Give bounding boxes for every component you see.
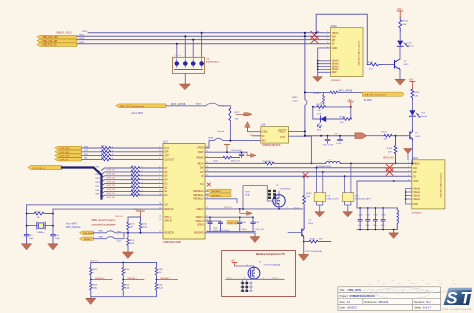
resistor R117 (102, 147, 111, 150)
svg-text:R136 0: R136 0 (314, 93, 322, 95)
wire CPEN to SB28 (205, 141, 214, 148)
svg-text:Shield: Shield (413, 188, 420, 190)
svg-text:VBAT: VBAT (198, 151, 204, 154)
junction (395, 135, 397, 137)
wire base T3 (288, 231, 302, 233)
port USB_FS1_DM (37, 35, 77, 39)
junction shield (317, 60, 319, 62)
resistor R306 N-A (90, 280, 93, 297)
wire USB_RESET to SB81 (94, 232, 107, 234)
resistor R127 10K (229, 109, 231, 121)
svg-text:R135: R135 (368, 62, 374, 64)
svg-text:C136: C136 (358, 215, 362, 217)
wire stub to ESD pin1 (176, 44, 178, 58)
svg-text:R110: R110 (131, 189, 135, 191)
svg-text:R250: R250 (130, 240, 135, 242)
svg-text:25: 25 (159, 207, 161, 209)
wire R133 to +5V node (326, 106, 351, 108)
svg-text:30: 30 (206, 151, 208, 153)
port MFX_IO8 Touchsensing (116, 104, 166, 108)
svg-text:R108: R108 (131, 193, 136, 195)
svg-text:4: 4 (327, 42, 328, 44)
svg-text:A4: A4 (347, 300, 351, 304)
svg-text:ULPI_DIR: ULPI_DIR (60, 152, 70, 154)
svg-text:MFX_GPIO8: MFX_GPIO8 (339, 90, 353, 93)
svg-text:2: 2 (263, 278, 264, 280)
svg-text:Title:: Title: (340, 288, 346, 292)
wire T4 drain (278, 192, 280, 195)
svg-text:T5_G: T5_G (272, 278, 277, 280)
capacitor C139 (218, 221, 222, 231)
label TP (yellow) (227, 221, 238, 225)
power +5V mid (347, 99, 353, 107)
port RESET# (80, 237, 94, 240)
power arrow right (pull-up rail) (236, 113, 244, 115)
wire R133 row (313, 106, 317, 108)
svg-text:1: 1 (408, 162, 409, 164)
wire LED row verticals (313, 107, 351, 119)
power arrow up (+5V into U14) (245, 122, 250, 128)
resistor R123 4K7 (384, 134, 392, 137)
wire CLKOUT row (82, 158, 163, 160)
svg-text:20: 20 (206, 175, 208, 177)
wire DP (77, 39, 331, 41)
connector CN16 USB Micro-AB (331, 25, 364, 82)
svg-text:ULPI_D4: ULPI_D4 (107, 181, 116, 183)
svg-text:OUT: OUT (280, 136, 286, 139)
wire VDD3.3 row (205, 216, 253, 218)
wire refsel2 (205, 199, 237, 203)
footprint pads T4 (268, 190, 276, 199)
wire to port (338, 91, 363, 93)
svg-text:ULPI_D0: ULPI_D0 (107, 197, 116, 199)
svg-text:REFSEL2: REFSEL2 (161, 278, 171, 280)
svg-text:C133 100nF[N-A]: C133 100nF[N-A] (305, 250, 322, 253)
svg-text:CLKOUT: CLKOUT (165, 159, 175, 161)
bus ULPI_D (62, 168, 102, 199)
wire ULPI_D1 (102, 191, 164, 194)
net label REFSEL2 (156, 279, 177, 281)
no-ERC cross DP (386, 169, 393, 176)
svg-text:VDDA: VDDA (197, 224, 204, 227)
svg-text:ESP: ESP (332, 72, 337, 74)
svg-text:0: 0 (142, 171, 143, 173)
mosfet T4 (273, 185, 291, 207)
ground U12 (315, 212, 325, 217)
no-connect cross NC pin (207, 183, 210, 186)
svg-text:4: 4 (408, 175, 409, 177)
svg-text:controlled by hardware: controlled by hardware (92, 223, 117, 226)
svg-text:VDD IO: VDD IO (115, 216, 123, 218)
inductor L8 (397, 208, 398, 230)
svg-text:26: 26 (159, 203, 161, 205)
svg-text:1.5K: 1.5K (317, 113, 322, 115)
svg-text:9: 9 (159, 186, 160, 188)
svg-text:From MFX: From MFX (66, 224, 77, 226)
svg-text:28: 28 (206, 219, 208, 221)
svg-text:Reference:: Reference: (365, 300, 378, 304)
wire R127 to EN node (229, 121, 231, 141)
port USB_RESET (80, 231, 94, 234)
power port +5V arrow (355, 133, 367, 139)
power +5V top (397, 7, 403, 17)
svg-text:C129 100nF: C129 100nF (219, 230, 230, 232)
svg-text:R246: R246 (130, 223, 135, 225)
svg-text:R131: R131 (310, 238, 316, 240)
svg-text:B-2: B-2 (427, 300, 432, 304)
port REFSEL0 (at IC) (207, 189, 231, 192)
svg-text:REFSEL1: REFSEL1 (193, 195, 204, 197)
capacitor bank rails (357, 208, 397, 230)
ground T3 (bottom) (299, 254, 309, 260)
resistor R115 (102, 150, 111, 153)
wire divider top rail (91, 262, 157, 264)
svg-text:[N-A]: [N-A] (245, 194, 250, 197)
svg-text:VBUS: VBUS (332, 33, 339, 35)
svg-text:ID: ID (332, 44, 335, 46)
svg-text:47590001: 47590001 (412, 212, 423, 214)
svg-text:R297: R297 (245, 192, 250, 194)
junction (184, 35, 186, 37)
junction (315, 32, 317, 34)
svg-text:USB_FS1_DM: USB_FS1_DM (42, 36, 58, 39)
wire T3 emitter (399, 70, 401, 80)
svg-text:15pF: 15pF (55, 238, 60, 240)
svg-text:Shield: Shield (332, 69, 339, 71)
svg-text:4.7uF: 4.7uF (336, 143, 342, 145)
svg-text:C141: C141 (374, 215, 378, 217)
wire DM row (205, 167, 412, 169)
svg-text:MB1246: MB1246 (379, 300, 389, 304)
svg-text:3: 3 (408, 170, 409, 172)
svg-text:Shield: Shield (413, 195, 420, 197)
svg-text:Open: Open (117, 231, 122, 233)
wire LD5 to T5 (411, 116, 413, 130)
svg-text:14: 14 (159, 215, 161, 217)
wire arrow to R123 (367, 135, 385, 137)
wire U15 to ground (345, 202, 351, 212)
wire LED top (399, 31, 401, 41)
svg-text:18: 18 (206, 166, 208, 168)
svg-text:XO: XO (165, 205, 169, 207)
resistor R250 100K (127, 233, 130, 252)
solder bridge SB28 (214, 138, 223, 140)
junction (201, 32, 203, 34)
svg-text:RBIAS: RBIAS (197, 157, 204, 160)
wire GNDPAD (205, 233, 255, 237)
ULPI PHY U13 USB3320C-EZK (163, 140, 205, 244)
net label REFSEL0 (91, 279, 112, 281)
wire CN16 GND (318, 48, 331, 72)
svg-text:MFX_IO2_Touchsensing: MFX_IO2_Touchsensing (120, 106, 145, 108)
svg-text:EN: EN (262, 140, 266, 143)
svg-text:ID: ID (413, 176, 416, 178)
power VDD_IO bar (137, 211, 145, 217)
svg-text:R109: R109 (131, 185, 136, 187)
resistor R131 10K (304, 240, 331, 243)
wire R135 to T3 base (382, 64, 395, 66)
wire shield stubs (318, 61, 331, 70)
svg-text:0: 0 (142, 167, 143, 169)
svg-text:SB81 closed if reset is: SB81 closed if reset is (92, 219, 116, 222)
svg-text:+5V: +5V (334, 134, 338, 136)
svg-text:Revision:: Revision: (414, 300, 425, 304)
wire shield bus CN13 (406, 189, 412, 205)
svg-text:GNDPAD: GNDPAD (194, 232, 204, 235)
svg-text:C35 100nF: C35 100nF (231, 150, 242, 152)
svg-text:10K: 10K (235, 118, 239, 120)
svg-text:NXT: NXT (165, 148, 170, 150)
ground T3 (395, 79, 405, 85)
capacitor C42 15pF (24, 234, 29, 243)
svg-text:ULPI_D5: ULPI_D5 (107, 177, 116, 179)
junction (26, 213, 28, 215)
svg-text:STP: STP (165, 156, 170, 158)
resistor R303 (155, 263, 158, 280)
svg-text:2: 2 (287, 207, 288, 209)
wire crystal left leg (26, 205, 28, 234)
junction (176, 43, 178, 45)
svg-text:47590001: 47590001 (331, 80, 342, 82)
transistor T5 9013 (410, 130, 421, 141)
svg-text:STT4P3LLH6[N-A]: STT4P3LLH6[N-A] (264, 264, 281, 267)
svg-text:R111: R111 (131, 166, 135, 168)
port ULPI_STP (55, 154, 82, 157)
port REFSEL1 (at IC) (207, 194, 231, 197)
svg-text:0: 0 (142, 182, 143, 184)
svg-text:10K: 10K (306, 196, 310, 198)
wire T5 emitter to VBUS (411, 140, 413, 163)
solder bridge SB81 (106, 231, 128, 233)
svg-text:0: 0 (125, 272, 126, 274)
wire U12 to ground (317, 202, 323, 212)
wire DM (77, 35, 331, 37)
svg-text:3: 3 (327, 38, 328, 40)
svg-text:8 of 17: 8 of 17 (423, 306, 431, 310)
capacitor C140 (238, 217, 242, 231)
transistor T3 (bottom) 9013 (302, 220, 314, 238)
svg-text:+5V: +5V (409, 77, 414, 81)
svg-text:+ + + +: + + + + (175, 55, 182, 57)
wire T4 source (278, 207, 280, 209)
svg-text:0: 0 (142, 174, 143, 176)
svg-text:ULPI_D3: ULPI_D3 (107, 185, 116, 187)
svg-text:8K06_1%: 8K06_1% (231, 160, 240, 162)
svg-text:R121: R121 (36, 211, 42, 213)
resistor R246 4K7 (127, 222, 130, 233)
svg-text:U14: U14 (261, 124, 266, 127)
svg-text:IN: IN (262, 135, 265, 138)
svg-text:23: 23 (206, 193, 208, 195)
svg-text:4: 4 (247, 264, 248, 266)
ground U11 (180, 84, 191, 90)
svg-text:REFSEL2: REFSEL2 (193, 199, 204, 201)
svg-text:Size:: Size: (340, 300, 346, 304)
svg-text:R130: R130 (306, 193, 312, 195)
resistor R135 (367, 63, 382, 66)
junction (192, 39, 194, 41)
svg-text:T5_D: T5_D (294, 207, 299, 209)
svg-text:ST: ST (447, 289, 473, 307)
svg-text:R302: R302 (125, 284, 130, 286)
solder bridge SB35 on riser (305, 100, 307, 106)
watermark scribble (350, 280, 462, 299)
svg-text:Shield: Shield (332, 61, 339, 63)
capacitor C131 4.7nF (325, 136, 330, 144)
svg-text:Shield: Shield (413, 199, 420, 201)
svg-text:2: 2 (159, 146, 160, 148)
svg-text:U13: U13 (163, 140, 168, 143)
wire stub to ESD pin3 (192, 40, 194, 58)
port ULPI_CK (55, 158, 82, 161)
svg-text:3: 3 (244, 278, 245, 280)
wire ESD to ground (184, 74, 186, 85)
wire to ground (317, 72, 319, 76)
junction EN node (229, 140, 231, 142)
svg-text:VBUS: VBUS (197, 163, 204, 165)
svg-text:ULPI_D[0..7]: ULPI_D[0..7] (33, 168, 46, 170)
ground C40 (48, 244, 58, 250)
wire fault row (305, 91, 330, 93)
svg-text:REFSEL1: REFSEL1 (127, 278, 137, 280)
svg-text:22K: 22K (388, 151, 392, 153)
junction (312, 106, 314, 108)
power +5V (T5 chain) (409, 77, 416, 89)
svg-text:RESET#: RESET# (84, 239, 92, 241)
svg-text:6: 6 (159, 178, 160, 180)
svg-text:6/9/2017: 6/9/2017 (347, 306, 358, 310)
resistor R301 N-A (155, 280, 158, 297)
wire VBUS loop over CN16 (316, 14, 367, 64)
wire OUT to VBUS_HS (289, 136, 312, 163)
svg-text:C131 4.7nF: C131 4.7nF (323, 145, 335, 147)
junctions rails (359, 207, 361, 209)
svg-text:0: 0 (142, 194, 143, 196)
LED LD5 Green (409, 110, 427, 118)
power arrow VBAT (247, 152, 251, 155)
svg-text:GND: GND (413, 181, 418, 183)
resistor R109 (131, 186, 140, 189)
capacitor C141 (373, 208, 377, 230)
svg-text:Shield: Shield (332, 66, 339, 68)
wire ULPI_D5 (102, 176, 164, 179)
port ULPI_D[0..7] (28, 165, 62, 169)
wire cap bottom rail (207, 230, 255, 232)
power VDD bar (VBAT) (224, 145, 229, 153)
wire ULPI_D0 (102, 195, 164, 198)
wire VBUS HS row (205, 162, 412, 164)
svg-text:24: 24 (206, 197, 208, 199)
svg-text:life.augmented: life.augmented (443, 307, 472, 311)
junction (304, 35, 306, 37)
capacitor C138 (208, 217, 212, 231)
resistor R110 (131, 190, 140, 193)
svg-text:0: 0 (142, 190, 143, 192)
svg-text:ULPI_D1: ULPI_D1 (107, 193, 116, 195)
svg-text:R296: R296 (340, 116, 346, 118)
svg-text:33: 33 (206, 231, 208, 233)
esd U15 ESDALC6V1 (342, 163, 371, 202)
resistor R297 loop (gate) (243, 186, 272, 209)
svg-text:R125: R125 (387, 148, 393, 150)
wire VDDIO row (205, 208, 303, 210)
svg-text:7: 7 (159, 182, 160, 184)
svg-text:DM: DM (200, 168, 204, 170)
resistor R126 10K (411, 89, 414, 100)
wire ID pulldown riser (303, 176, 305, 195)
LED LD7 Green (397, 41, 414, 48)
svg-text:ULPI_D7: ULPI_D7 (107, 170, 116, 172)
power +5V (backup) (231, 261, 238, 266)
mosfet T5 (backup) (248, 267, 260, 279)
svg-text:Date:: Date: (340, 306, 346, 310)
wire ID row (205, 175, 412, 177)
resistor R302 N-A (122, 280, 125, 297)
svg-text:Backup footprint for T5: Backup footprint for T5 (256, 252, 285, 256)
capacitor C130 4.7uF (338, 136, 343, 141)
wire label to SB29 (166, 105, 206, 107)
svg-text:C144: C144 (381, 215, 385, 217)
svg-text:R112: R112 (131, 170, 135, 172)
resistor R296 620 (343, 118, 352, 121)
svg-text:USB_Micro-AB receptacle: USB_Micro-AB receptacle (439, 172, 442, 198)
svg-text:GND: GND (262, 131, 268, 134)
capacitor C145 (251, 217, 255, 231)
svg-text:ULPI_CK: ULPI_CK (60, 159, 69, 161)
wire +5V switched rail (305, 135, 355, 137)
svg-text:4.7u: 4.7u (358, 225, 362, 227)
wire RESET# to SB82 (94, 238, 107, 240)
capacitor C144 (381, 208, 385, 230)
svg-text:MFX_GPIO12: MFX_GPIO12 (66, 227, 81, 229)
svg-text:REFSEL0: REFSEL0 (212, 191, 222, 193)
inductor L7 (326, 161, 341, 163)
capacitor C137 (366, 208, 370, 230)
svg-text:1M: 1M (37, 217, 40, 219)
wire refsel0 (205, 190, 207, 192)
svg-text:SPK_L: SPK_L (165, 217, 173, 219)
junction (26, 225, 28, 227)
svg-text:PA3: PA3 (96, 193, 99, 196)
svg-text:PB13: PB13 (96, 170, 101, 172)
resistor R108 (131, 194, 140, 197)
port USB_FS1_DP (37, 39, 77, 43)
wire riser lower (304, 106, 306, 136)
wire ULPI_D3 (102, 184, 164, 187)
wire DP row (205, 171, 412, 173)
svg-text:C139: C139 (213, 227, 217, 229)
svg-text:R305: R305 (93, 269, 98, 271)
svg-text:0: 0 (93, 272, 94, 274)
wire VBAT row (205, 151, 247, 153)
svg-text:Green: Green (408, 45, 415, 48)
svg-text:ULPI_STP: ULPI_STP (60, 156, 70, 158)
svg-text:PB11: PB11 (96, 178, 100, 180)
svg-text:SB28: SB28 (208, 137, 214, 139)
resistor R130 10K (303, 196, 306, 227)
wire STP row (82, 155, 163, 157)
svg-text:PB10: PB10 (96, 182, 101, 184)
svg-text:R133: R133 (317, 104, 323, 106)
wire crystal right leg (52, 209, 54, 234)
svg-text:2: 2 (408, 166, 409, 168)
svg-text:8: 8 (206, 216, 207, 218)
svg-text:ESDA14V2-2BF3: ESDA14V2-2BF3 (355, 198, 371, 201)
solder bridge SB29 (206, 103, 220, 106)
svg-text:PB0: PB0 (96, 190, 100, 192)
wire RESETB (128, 232, 163, 234)
wire RBIAS: resistor R120 (205, 157, 223, 159)
